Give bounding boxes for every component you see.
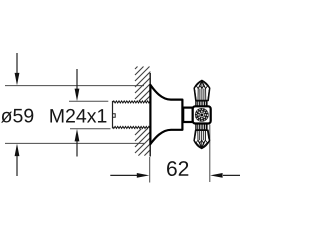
wall face line [149,73,151,157]
label 62 [167,161,188,176]
dimension 62 line left with arrow [110,173,149,178]
extension line 62 right [209,125,211,183]
arrow up d59 bottom [15,144,20,176]
escutcheon bell [150,85,182,144]
handle collar bottom [196,124,207,130]
pipe left end edge [112,101,114,128]
pipe end slot notch [113,114,116,118]
extension line M24 top [69,100,108,102]
label M24x1 [50,109,106,123]
arrow down d59 top [15,53,20,85]
crystal arm bottom [194,130,209,148]
pipe thread bottom edge [113,126,151,128]
crystal arm top [194,80,210,100]
arrow up M24 bottom [75,129,80,157]
wall hatching lower block [135,129,150,156]
wall hatching upper block [135,67,150,102]
handle hub [193,106,211,123]
label diameter 59 [1,109,33,123]
handle collar top [196,101,207,107]
valve stem [183,108,193,122]
extension line M24 bottom [70,128,111,130]
dimension 62 line right with arrow [210,173,240,178]
pipe body [113,102,151,128]
pipe thread top edge [113,101,151,103]
extension line bottom (diameter 59 lower) [5,142,144,144]
extension line top (diameter 59 upper) [5,85,144,87]
extension line 62 left [149,157,151,183]
arrow down M24 top [75,69,80,101]
knurled wheel face [195,108,209,122]
